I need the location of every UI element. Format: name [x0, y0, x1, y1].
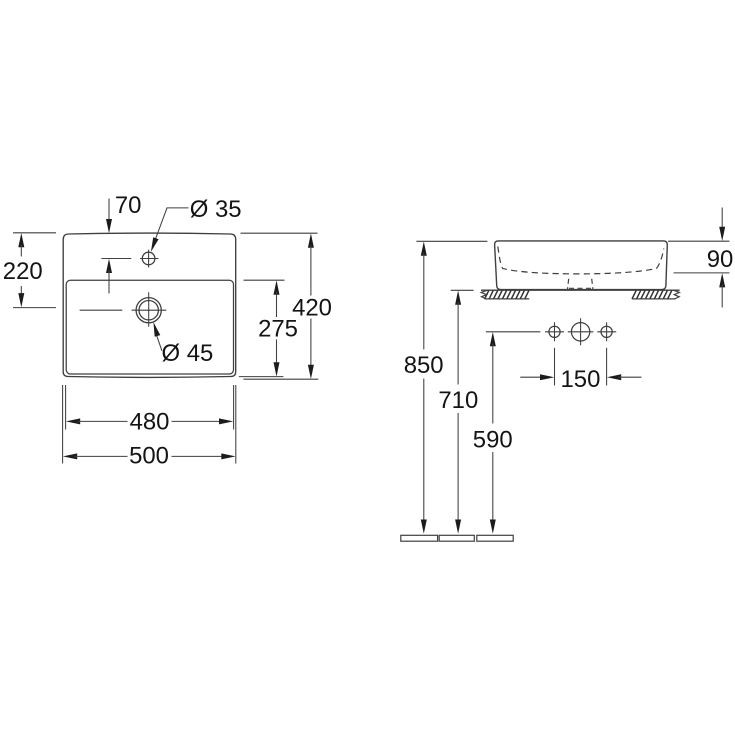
hole center crosshair — [568, 318, 594, 345]
faucet hole circle — [142, 252, 155, 265]
dim 220 line upper — [20, 245, 22, 257]
dim 275 line upper — [276, 292, 278, 317]
dim 420 line upper — [310, 245, 312, 296]
dim 850 arrow up — [421, 242, 427, 256]
counter hatch left block — [485, 290, 529, 299]
drain centerline tick — [80, 309, 123, 311]
svg-text:500: 500 — [129, 443, 169, 470]
dim 150 arrow right-pointing — [540, 374, 554, 380]
dim 90 line lower — [721, 285, 723, 308]
dim 590 arrow up — [490, 332, 496, 346]
counter break zigzag right — [673, 290, 679, 299]
dim 590 line lower — [492, 452, 494, 523]
extension line 480 right — [233, 385, 235, 430]
dim 590 arrow down — [490, 520, 496, 534]
dim 500 line right — [172, 455, 225, 457]
hole right crosshair — [597, 322, 616, 341]
dim 90 arrow down — [719, 227, 725, 241]
dim 90 top extension — [668, 240, 730, 242]
leader arrow D45 — [153, 322, 160, 337]
dim 710 line upper — [457, 302, 459, 385]
dim 480 line right — [172, 420, 222, 422]
svg-text:220: 220 — [3, 258, 43, 285]
dim 710 top extension — [451, 289, 474, 291]
svg-text:275: 275 — [258, 315, 298, 342]
dim 850 line lower — [423, 379, 425, 523]
svg-text:150: 150 — [561, 366, 601, 393]
dim 420 top extension — [241, 232, 318, 234]
drain trap hidden line right (dashed) — [592, 279, 593, 289]
dim 590 line upper — [492, 344, 494, 424]
dim 220 top tick — [13, 232, 56, 234]
faucet hole center dot — [148, 258, 150, 260]
extension line 500 left — [62, 385, 64, 464]
leader arrow D35 — [151, 237, 159, 252]
dim 850 line upper — [423, 253, 425, 350]
dim 480 line left — [77, 420, 127, 422]
drain hole inner circle — [139, 301, 158, 320]
dim 150 line right — [618, 376, 641, 378]
leader line for D45 — [156, 334, 162, 351]
svg-text:Ø 35: Ø 35 — [190, 196, 242, 223]
dim 150 arrow left-pointing — [607, 374, 621, 380]
dim 275 arrow down — [274, 362, 280, 376]
drain hole outer circle — [136, 298, 161, 323]
basin outline (front view) — [495, 241, 668, 290]
extension line 500 right — [235, 385, 237, 464]
dim 420 line lower — [310, 319, 312, 368]
svg-text:480: 480 — [130, 408, 170, 435]
floor bar middle — [439, 535, 474, 541]
drain center dot — [148, 309, 150, 311]
dim 70 arrow down — [106, 219, 112, 233]
dim 710 arrow down — [455, 520, 461, 534]
svg-text:70: 70 — [115, 192, 142, 219]
faucet hole crosshair — [140, 250, 159, 268]
svg-text:710: 710 — [438, 387, 478, 414]
counter hatch right bottom line — [632, 298, 676, 300]
dim 710 arrow up — [455, 291, 461, 305]
hole left circle — [549, 326, 560, 337]
drain crosshair — [132, 292, 167, 327]
dim 220 bottom tick — [13, 307, 56, 309]
dim 220 arrow down — [18, 293, 24, 307]
dim 710 line lower — [457, 413, 459, 523]
svg-text:Ø 45: Ø 45 — [162, 340, 214, 367]
hole left crosshair — [545, 322, 564, 341]
dim 150 extension right — [606, 348, 608, 386]
svg-text:850: 850 — [404, 352, 444, 379]
faucet centerline tick — [101, 258, 131, 260]
mounting holes centerline — [486, 331, 541, 333]
svg-text:90: 90 — [707, 246, 734, 273]
dim 850 arrow down — [421, 520, 427, 534]
counter hatch left bottom line — [485, 298, 530, 300]
counter break zigzag left — [481, 290, 487, 299]
dim 220 line lower — [20, 286, 22, 296]
dim 275 top extension — [244, 279, 285, 281]
dim 850 top extension — [416, 240, 487, 242]
counter top line — [481, 289, 680, 291]
dim 420 arrow down — [308, 365, 314, 379]
drain trap hidden line bottom (dashed) — [569, 287, 592, 289]
dim 70 line upper — [108, 199, 110, 223]
svg-text:420: 420 — [292, 294, 332, 321]
dim 500 arrow left — [63, 453, 77, 459]
dim 420 bottom extension — [243, 378, 318, 380]
dim 90 line upper — [721, 208, 723, 230]
drain trap hidden line left (dashed) — [568, 279, 569, 289]
floor bar left — [401, 535, 438, 541]
dim 90 arrow up — [719, 273, 725, 287]
dim 275 bottom extension — [239, 376, 284, 378]
inner bowl hidden line (dashed) — [498, 247, 664, 274]
dim 90 bottom extension — [674, 272, 730, 274]
hole right circle — [601, 326, 612, 337]
dim 275 line lower — [276, 340, 278, 366]
dim 480 arrow right — [219, 418, 233, 424]
basin outer rim (top view) — [63, 233, 236, 377]
basin inner bowl (top view) — [66, 280, 233, 374]
dim 220 arrow up — [18, 233, 24, 247]
svg-text:590: 590 — [473, 426, 513, 453]
hole center circle — [571, 323, 589, 341]
dim 500 line left — [74, 455, 127, 457]
dim 500 arrow right — [221, 453, 235, 459]
dim 150 extension left — [554, 348, 556, 386]
leader line for D35 — [154, 208, 188, 243]
extension line 480 left — [65, 385, 67, 430]
dim 480 arrow left — [66, 418, 80, 424]
dim 70 arrow up — [106, 259, 112, 273]
dim 70 line lower — [108, 270, 110, 294]
dim 150 line left — [520, 376, 542, 378]
dim 420 arrow up — [308, 233, 314, 247]
floor bar right — [477, 535, 513, 541]
dim 275 arrow up — [274, 280, 280, 294]
counter hatch right block — [632, 290, 672, 299]
